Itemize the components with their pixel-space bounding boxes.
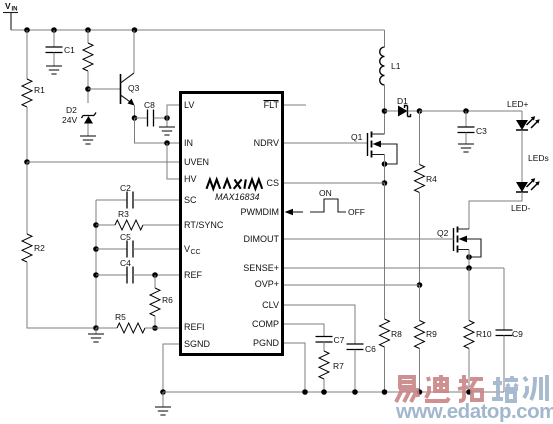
wire R10 bottom (468, 349, 470, 393)
svg-text:LV: LV (184, 100, 194, 110)
wire C7 to R7 (323, 342, 325, 351)
wire C1 ground stub (53, 53, 55, 67)
svg-text:R5: R5 (115, 312, 126, 322)
capacitor C5 (120, 232, 133, 258)
junction D1-R4 (417, 108, 423, 114)
wire LED- return (469, 192, 522, 229)
junction bus-R1 (24, 27, 30, 33)
resistor R2 (22, 234, 45, 262)
svg-text:CC: CC (191, 249, 201, 256)
capacitor C6 (347, 344, 377, 354)
wire Q1 drain up (384, 111, 386, 134)
capacitor C8 (144, 100, 155, 127)
resistor R5 (115, 312, 145, 333)
wire R3 left (96, 224, 115, 226)
wire Rbias top (87, 30, 89, 43)
LED D3 top (516, 116, 540, 130)
svg-text:D1: D1 (397, 96, 408, 106)
junction bus-Rbias (85, 27, 91, 33)
wire bus corner to L1 (384, 30, 386, 47)
svg-text:R1: R1 (34, 85, 45, 95)
wire OVP+ (284, 284, 420, 286)
LED D4 bottom (516, 178, 540, 192)
svg-text:R10: R10 (476, 329, 492, 339)
transistor Q1 (351, 132, 397, 165)
wire FLT (284, 104, 306, 106)
svg-text:C9: C9 (512, 329, 523, 339)
junction CS node (382, 180, 388, 186)
resistor bias (unlabeled) (83, 43, 93, 71)
wire SGND (163, 344, 179, 392)
junction bus-C1 (51, 27, 57, 33)
watermark 易迪拓培训 www.edatop.com (395, 375, 553, 423)
svg-text:IN: IN (12, 7, 18, 13)
wire SENSE to R10 (468, 268, 470, 321)
svg-text:V: V (5, 1, 11, 11)
ground SGND (155, 407, 171, 415)
svg-text:SC: SC (184, 195, 197, 205)
wire CLV to C6 (284, 305, 355, 344)
wire C9 branch (503, 268, 505, 330)
svg-text:C5: C5 (120, 232, 131, 242)
wire R8 bottom (384, 347, 386, 392)
capacitor C9 (496, 329, 524, 339)
svg-text:C8: C8 (144, 100, 155, 110)
wire Q3 emitter to C8 node (134, 105, 136, 118)
capacitor C3 (458, 126, 488, 136)
wire R4 to OVP node (419, 193, 421, 286)
svg-text:COMP: COMP (252, 319, 279, 329)
ground under C3 (458, 144, 474, 152)
svg-text:C6: C6 (365, 344, 376, 354)
wire R2 top (26, 162, 28, 234)
wire C5 left (96, 248, 127, 250)
svg-text:R3: R3 (118, 209, 129, 219)
node VIN (3, 1, 18, 13)
svg-text:C7: C7 (334, 335, 345, 345)
wire R1 to UVEN node (26, 107, 28, 162)
wire VIN stub (10, 13, 12, 31)
junction emitter-C8 (132, 115, 138, 121)
pin VCC (184, 244, 201, 256)
svg-text:LEDs: LEDs (528, 153, 549, 163)
PWMDIM input arrow (285, 209, 304, 215)
svg-text:R2: R2 (34, 243, 45, 253)
junction rail-R3 (93, 222, 99, 228)
junction C6-rail (352, 389, 358, 395)
inductor L1 (380, 47, 401, 85)
wire COMP to C7 (284, 324, 324, 337)
svg-text:C2: C2 (120, 183, 131, 193)
junction R9-rail (417, 389, 423, 395)
junction SGND-rail (160, 389, 166, 395)
junction rail-C5 (93, 246, 99, 252)
junction C3 (463, 108, 469, 114)
wire C9 bottom (503, 336, 505, 393)
svg-text:C1: C1 (64, 45, 75, 55)
wire R2 bottom to REFI line (27, 262, 96, 328)
wire R7 bottom (323, 379, 325, 392)
junction base node (85, 86, 91, 92)
junction PGND-rail (302, 389, 308, 395)
wire C4 left (96, 274, 127, 276)
wire base (88, 88, 120, 90)
wire C6 bottom (354, 350, 356, 393)
wire top supply bus (11, 29, 385, 31)
junction L1-D1-Q1 (382, 108, 388, 114)
wire left bypass rail (95, 200, 97, 328)
svg-text:SENSE+: SENSE+ (243, 263, 279, 273)
svg-text:www.edatop.com: www.edatop.com (395, 400, 553, 423)
svg-text:Q1: Q1 (351, 132, 363, 142)
wire to C8 (135, 117, 148, 119)
svg-text:LED-: LED- (511, 203, 531, 213)
svg-text:C3: C3 (476, 126, 487, 136)
svg-text:R7: R7 (333, 361, 344, 371)
svg-text:C4: C4 (120, 258, 131, 268)
wire VCC (133, 248, 179, 250)
junction R7-rail (321, 389, 327, 395)
ground under C1 (46, 66, 62, 74)
svg-text:L1: L1 (391, 61, 401, 71)
svg-text:REFI: REFI (184, 322, 205, 332)
wire Q1 source down (384, 155, 386, 184)
PWM waveform (310, 188, 365, 217)
pin FLT (264, 100, 280, 110)
resistor R3 (115, 209, 143, 230)
svg-text:HV: HV (184, 174, 197, 184)
wire UVEN (27, 161, 179, 163)
svg-text:IN: IN (184, 138, 193, 148)
watermark char 培 (492, 376, 518, 401)
wire Q2 source down (468, 250, 470, 269)
resistor R6 (150, 288, 173, 316)
svg-text:R6: R6 (162, 295, 173, 305)
ground under rail (88, 334, 104, 342)
wire CS node to R8 (384, 183, 386, 319)
wire CS (284, 182, 385, 184)
svg-text:D2: D2 (66, 105, 77, 115)
capacitor C2 (120, 183, 133, 209)
ground under D2 (80, 136, 96, 144)
wire D1 anode (385, 110, 399, 112)
svg-text:OFF: OFF (348, 207, 365, 217)
svg-text:CLV: CLV (262, 300, 279, 310)
svg-text:R9: R9 (426, 329, 437, 339)
wire HV link (167, 143, 179, 179)
wire IN (135, 118, 180, 143)
junction R6-REFI (152, 325, 158, 331)
wire C3 ground stub (465, 133, 467, 145)
svg-text:V: V (184, 244, 190, 254)
wire LV hook (167, 105, 179, 118)
watermark char 迪 (425, 375, 449, 401)
svg-text:LED+: LED+ (507, 99, 529, 109)
resistor R10 (464, 321, 492, 349)
svg-text:RT/SYNC: RT/SYNC (184, 220, 224, 230)
resistor R1 (22, 79, 45, 107)
svg-text:24V: 24V (62, 115, 77, 125)
junction rail-C4 (93, 272, 99, 278)
transistor Q2 (437, 227, 481, 258)
svg-text:R4: R4 (426, 174, 437, 184)
wire L1 to D1 node (384, 85, 386, 111)
wire output node (420, 110, 523, 112)
junction REF-R6 (152, 272, 158, 278)
junction C8-LV-ground (164, 115, 170, 121)
logo MAXIM (207, 179, 263, 188)
svg-text:DIMOUT: DIMOUT (244, 234, 280, 244)
ground under C8 (159, 127, 175, 135)
junction R10-rail (466, 389, 472, 395)
wire REFI left (96, 327, 117, 329)
wire OVP to R9 (419, 285, 421, 321)
junction Q1 source (382, 161, 388, 167)
junction R8-rail (382, 389, 388, 395)
wire SGND ground stub (162, 392, 164, 407)
junction UVEN node (24, 159, 30, 165)
junction rail-REFI-ground (93, 325, 99, 331)
junction Q2 source (466, 254, 472, 260)
svg-text:Q3: Q3 (128, 83, 140, 93)
junction bus-Q3 collector (132, 27, 138, 33)
diode D1 (397, 96, 411, 117)
svg-text:CS: CS (266, 178, 279, 188)
op-amp U1 MAX16834 box (181, 93, 283, 355)
wire LED string top (521, 111, 523, 120)
resistor R7 (319, 351, 344, 379)
wire PGND (284, 343, 305, 392)
junction IN-HV (164, 140, 170, 146)
wire Q3 collector (133, 30, 135, 73)
resistor R8 (380, 319, 403, 347)
svg-text:NDRV: NDRV (254, 138, 279, 148)
wire C1 top (53, 30, 55, 47)
watermark char 拓 (458, 375, 483, 401)
watermark char 易 (396, 377, 419, 402)
resistor R4 (415, 165, 438, 193)
transistor Q3 (121, 73, 140, 106)
svg-text:FLT: FLT (264, 100, 280, 110)
wire DIMOUT to Q2 gate (284, 238, 454, 240)
wire R1 top (26, 30, 28, 79)
wire C3 top (465, 111, 467, 127)
wire R6 top (154, 275, 156, 288)
wire REFI right (145, 327, 179, 329)
capacitor C1 (46, 45, 76, 55)
wire SC left (96, 199, 127, 201)
wire bottom ground rail (163, 391, 504, 393)
capacitor C7 (316, 335, 345, 345)
wire C8 ground stub (166, 118, 168, 127)
wire C8 right (154, 117, 168, 119)
capacitor C4 (120, 258, 133, 284)
wire rail ground stub (95, 328, 97, 334)
svg-text:OVP+: OVP+ (255, 279, 279, 289)
watermark char 训 (524, 375, 547, 401)
svg-text:MAX16834: MAX16834 (215, 192, 260, 202)
wire SENSE+ (284, 267, 504, 269)
wire NDRV to Q1 gate (284, 142, 368, 144)
wire D2 ground stub (87, 124, 89, 137)
svg-text:PWMDIM: PWMDIM (241, 207, 280, 217)
svg-text:Q2: Q2 (437, 228, 449, 238)
svg-text:PGND: PGND (253, 338, 280, 348)
wire R6 bottom (154, 316, 156, 328)
svg-text:REF: REF (184, 270, 203, 280)
wire R9 bottom (419, 349, 421, 393)
junction OVP node (417, 282, 423, 288)
svg-text:ON: ON (319, 188, 332, 198)
svg-text:UVEN: UVEN (184, 157, 209, 167)
svg-text:R8: R8 (391, 329, 402, 339)
wire between LEDs (521, 130, 523, 182)
wire Rbias to base node (87, 71, 89, 103)
wire SC right (133, 199, 179, 201)
svg-text:SGND: SGND (184, 339, 211, 349)
resistor R9 (415, 321, 438, 349)
zener D2 (62, 105, 96, 125)
wire REF (133, 274, 179, 276)
wire RT/SYNC (143, 224, 179, 226)
wire D1 cathode (408, 110, 420, 112)
junction SENSE node (466, 265, 472, 271)
wire R4 top (419, 111, 421, 165)
